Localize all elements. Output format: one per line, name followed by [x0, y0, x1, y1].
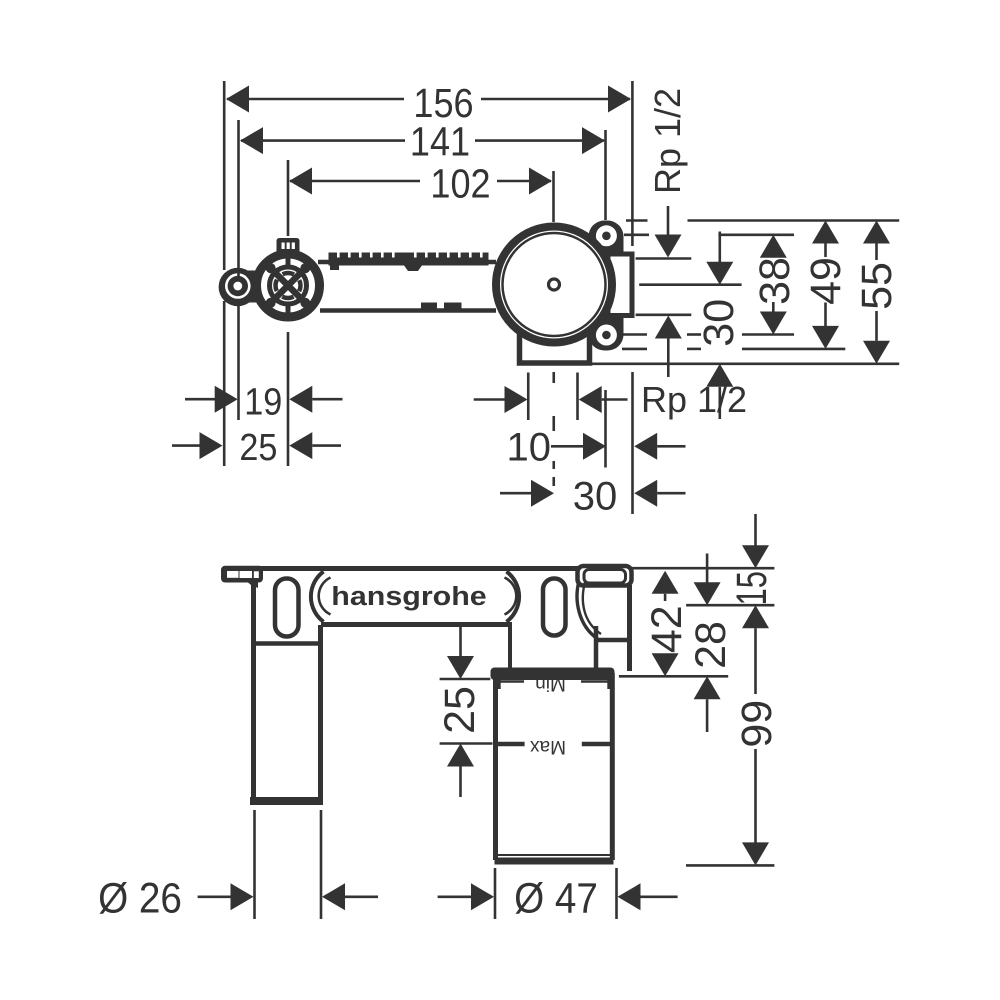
- ref line part bottom y363.8: [592, 362, 899, 365]
- flange behind big circle: [589, 221, 624, 351]
- ext line right x632.5 low: [631, 372, 634, 514]
- right top tab: [578, 566, 632, 586]
- ext lines cylinder: [494, 868, 497, 919]
- svg-text:25: 25: [436, 686, 484, 734]
- band inner arc right: [505, 578, 517, 615]
- valve ear white ring: [225, 273, 251, 299]
- dim 102: [289, 161, 552, 207]
- svg-text:Min: Min: [535, 673, 566, 694]
- ext lines column: [253, 810, 256, 919]
- ear top dark dot: [602, 232, 611, 241]
- ref line ear bottom y334.5: [622, 333, 647, 336]
- svg-text:25: 25: [239, 425, 277, 468]
- svg-text:Ø 47: Ø 47: [514, 874, 598, 922]
- svg-text:30: 30: [695, 299, 743, 347]
- ear bottom dark dot: [602, 331, 611, 340]
- middle piece right edge: [594, 626, 599, 671]
- ext line ear x605.5 low: [604, 390, 607, 468]
- dim 25 vertical: [436, 626, 493, 797]
- band outer arc right: [507, 572, 520, 622]
- svg-text:Max: Max: [530, 736, 566, 757]
- dim 28: [687, 554, 735, 733]
- ref line center y284.7: [639, 283, 741, 286]
- svg-text:Rp 1/2: Rp 1/2: [647, 88, 688, 194]
- svg-text:Ø 26: Ø 26: [98, 874, 182, 922]
- ext line 156 left: [223, 81, 226, 270]
- foot under big circle: [520, 334, 590, 363]
- ref line y865.4: [686, 864, 774, 867]
- plate left edge: [251, 584, 256, 644]
- svg-text:Rp 1/2: Rp 1/2: [641, 379, 747, 420]
- right slot: [543, 579, 566, 636]
- ext line 102 left (valve center): [287, 160, 290, 236]
- valve ear dark ring: [228, 276, 248, 296]
- dim 10 row: [507, 426, 686, 470]
- dim 55: [853, 221, 901, 364]
- big circle outer ring: [496, 227, 612, 343]
- ext line 141 left: [237, 120, 240, 277]
- bar small bump left: [330, 263, 339, 270]
- ear top white ring: [596, 225, 617, 246]
- svg-text:49: 49: [802, 257, 850, 305]
- dim 19: [185, 380, 343, 423]
- valve vertical slot marks: [286, 258, 291, 267]
- bar bottom edge: [320, 308, 496, 313]
- plate top edge: [256, 566, 630, 571]
- sub-cap line: [500, 680, 524, 683]
- bar mid trapezoid: [403, 264, 423, 271]
- ref line y605.2: [686, 604, 774, 607]
- svg-text:141: 141: [410, 119, 470, 165]
- dim 49: [802, 221, 850, 349]
- left column: [251, 644, 256, 801]
- dim 156: [226, 81, 631, 127]
- right edge: [627, 585, 632, 671]
- ref line boss bottom y314.8: [636, 313, 692, 316]
- valve ear blob: [219, 268, 257, 306]
- ear bottom white ring: [596, 325, 617, 346]
- cylinder bottom thin: [498, 854, 610, 856]
- svg-text:38: 38: [751, 257, 799, 305]
- dim 30 row: [500, 474, 686, 518]
- valve X cross: [275, 272, 302, 299]
- hansgrohe band bottom edge: [321, 622, 512, 627]
- svg-text:99: 99: [733, 700, 781, 748]
- ref line boss top y258.5: [636, 257, 692, 260]
- bar clip 1: [421, 303, 437, 311]
- ext line port right x577.5: [576, 373, 579, 421]
- column bottom thick: [250, 797, 323, 805]
- ref line top edge y220.5: [626, 219, 648, 222]
- svg-text:102: 102: [430, 161, 490, 207]
- bar top edge: [318, 260, 496, 265]
- dim 30 vertical: [695, 232, 743, 420]
- big circle inner ring: [503, 233, 606, 336]
- ref line circle bottom y348.9: [622, 348, 647, 351]
- svg-text:30: 30: [573, 474, 618, 518]
- boss right: [608, 254, 632, 316]
- dim 38: [751, 235, 799, 335]
- cap foot left: [495, 678, 501, 689]
- valve diagonal dots: [266, 263, 276, 273]
- dim 15 and 99 column: [727, 514, 781, 865]
- dashed centerline x553.75: [552, 372, 555, 383]
- svg-text:42: 42: [643, 605, 691, 653]
- valve cap: [277, 238, 300, 258]
- plate corner wedge: [245, 580, 258, 588]
- dim 25: [172, 425, 341, 468]
- ext line 156 right: [631, 81, 634, 246]
- valve ear neck: [243, 271, 261, 303]
- band inner arc left: [319, 578, 331, 615]
- left slot: [275, 579, 299, 637]
- cylinder walls: [493, 673, 498, 860]
- valve ear white dot: [233, 282, 242, 291]
- dim D47: [438, 874, 678, 922]
- dim Rp 1/2 bottom row: [474, 379, 747, 420]
- bar clip 2: [444, 303, 462, 311]
- svg-text:55: 55: [853, 262, 901, 310]
- cylinder cap: [491, 668, 615, 681]
- valve inner circle: [270, 267, 307, 304]
- Rp 1/2 bottom leader: [655, 316, 682, 339]
- dim 42: [643, 571, 691, 677]
- svg-text:10: 10: [507, 426, 552, 470]
- dim D26: [98, 874, 378, 922]
- cap foot right: [607, 678, 613, 689]
- valve cap slots: [282, 243, 285, 250]
- valve inner arcs: [276, 273, 301, 298]
- svg-text:hansgrohe: hansgrohe: [331, 581, 486, 610]
- band outer arc left: [311, 572, 324, 622]
- right block step: [596, 638, 630, 643]
- bar ribbed strip: [329, 253, 489, 266]
- svg-text:19: 19: [244, 380, 282, 423]
- Max ticks: [495, 742, 525, 747]
- cylinder bottom thick: [495, 858, 614, 865]
- ref line top y568.2: [632, 567, 775, 570]
- left tab: [221, 566, 263, 583]
- S curve double: [577, 581, 599, 640]
- ref line ear top y234.8: [624, 234, 649, 237]
- valve outer ring: [257, 254, 320, 317]
- ext line 102 right (circle center): [552, 171, 555, 222]
- svg-text:15: 15: [727, 571, 775, 605]
- ref line y676.3: [619, 675, 728, 678]
- middle piece left edge: [508, 624, 512, 671]
- ext line 141 right (ear center): [604, 130, 607, 220]
- dim 141: [240, 119, 605, 165]
- ext line port left x528.25: [527, 373, 530, 421]
- big circle center dot: [549, 279, 560, 290]
- svg-text:28: 28: [687, 621, 735, 669]
- plate bottom left section: [251, 641, 322, 646]
- Rp 1/2 top leader: [667, 206, 670, 236]
